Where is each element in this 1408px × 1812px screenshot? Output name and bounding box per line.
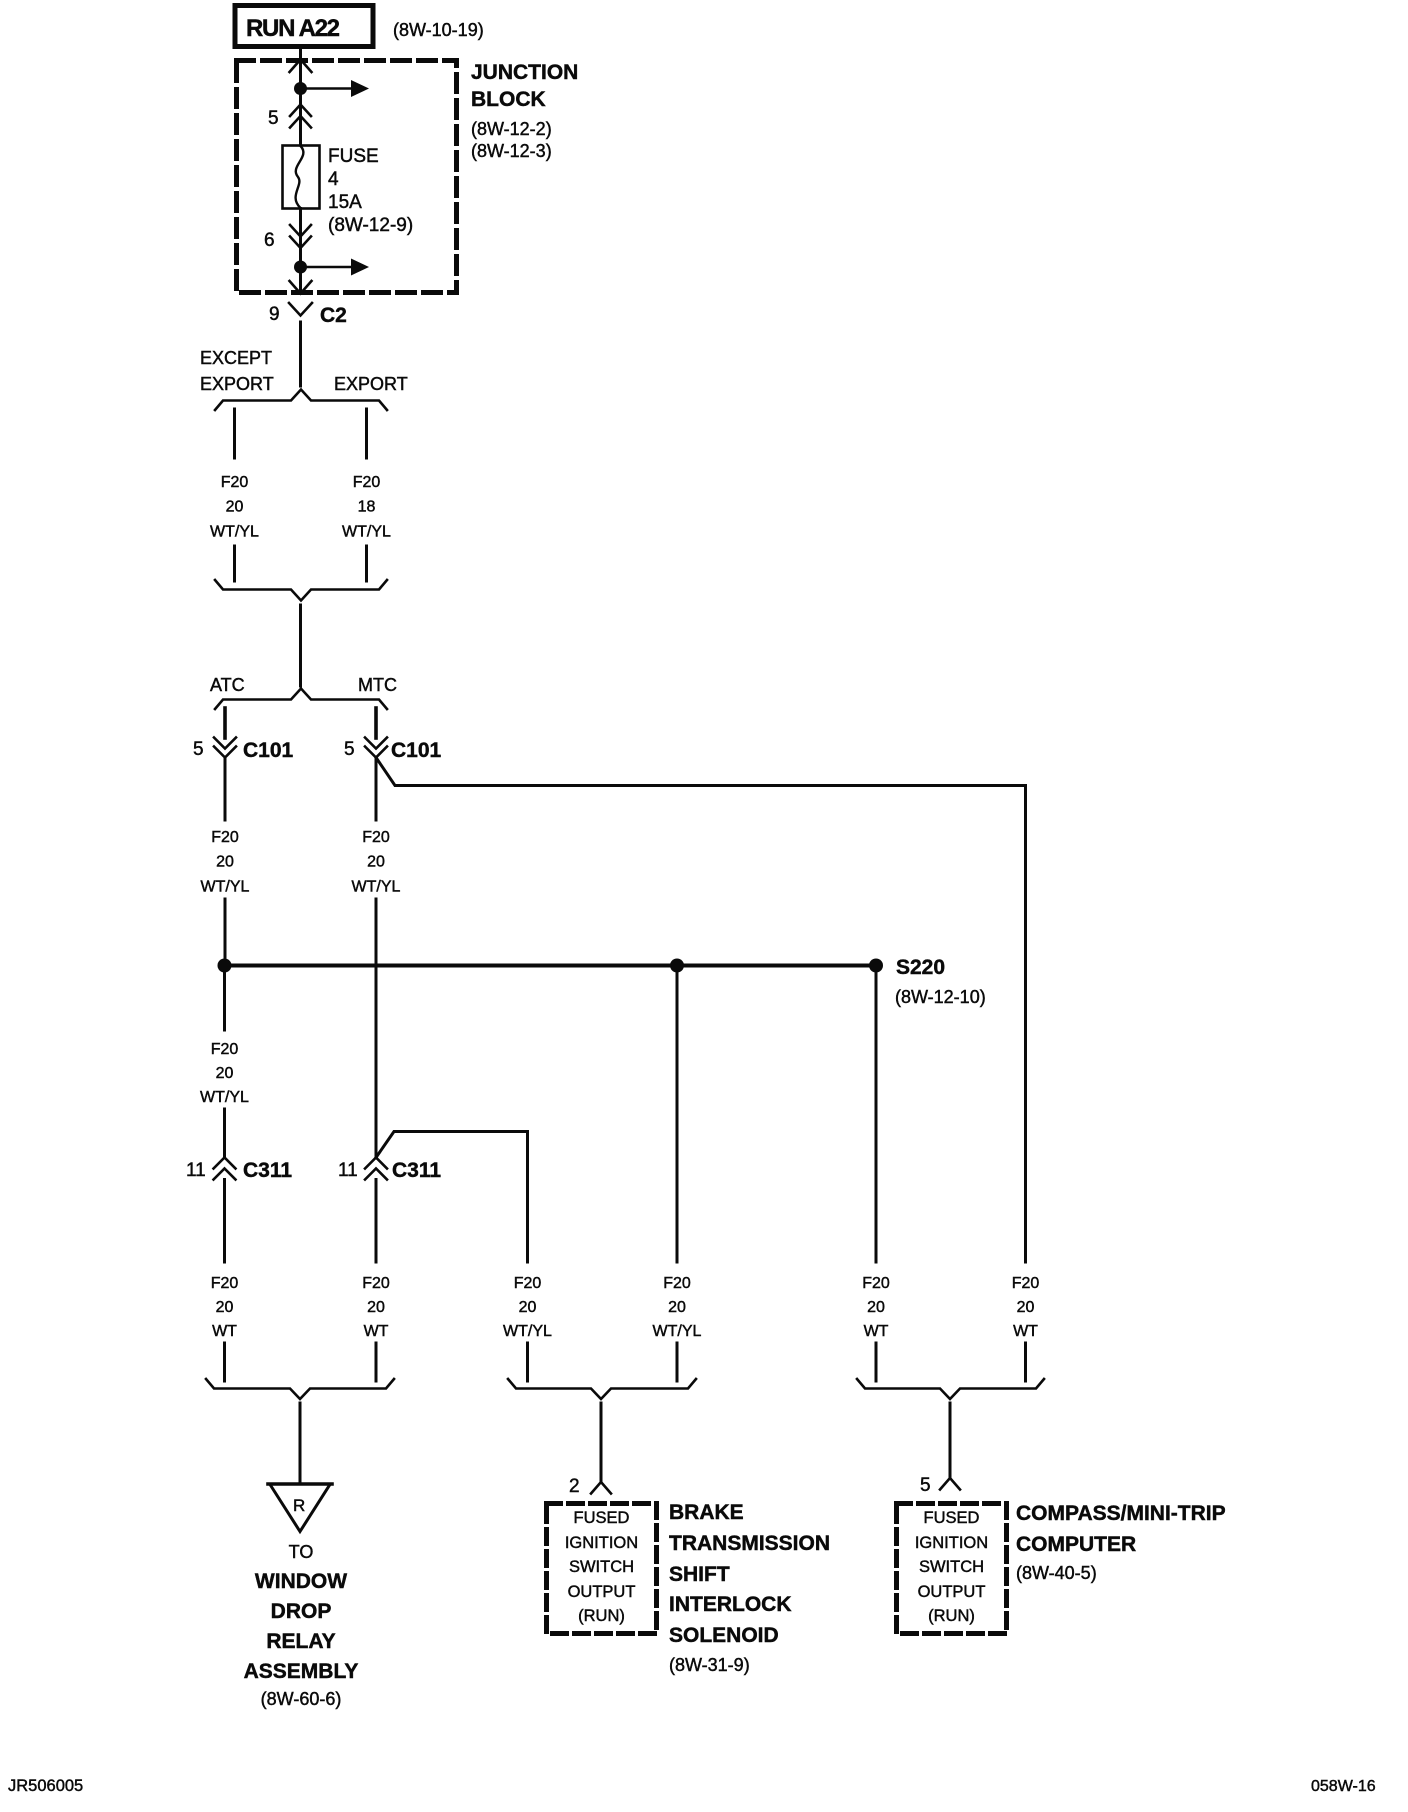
pin split at solenoid	[591, 1482, 611, 1494]
label TO WINDOW DROP RELAY ASSEMBLY (8W-60-6)	[244, 1542, 359, 1709]
wire label F20 20 WT (col 1)	[211, 1275, 239, 1340]
connector C311 (right) chevrons	[365, 1158, 387, 1180]
fused ignition switch output box (computer)	[897, 1504, 1007, 1634]
wire splice to label gap (left col)	[223, 966, 226, 1031]
svg-text:R: R	[293, 1496, 305, 1515]
svg-text:5: 5	[920, 1475, 931, 1496]
connector C311 (left) chevrons	[214, 1158, 236, 1180]
wire label F20 20 WT (col 5)	[862, 1275, 890, 1340]
svg-text:WINDOW: WINDOW	[255, 1570, 347, 1593]
svg-text:INTERLOCK: INTERLOCK	[669, 1593, 792, 1616]
wire label F20 20 WT/YL (col 4)	[653, 1275, 702, 1340]
svg-text:JR506005: JR506005	[8, 1777, 83, 1795]
junction block dashed outline	[237, 61, 457, 293]
svg-text:(8W-40-5): (8W-40-5)	[1016, 1563, 1097, 1583]
svg-text:20: 20	[1017, 1299, 1035, 1316]
svg-text:MTC: MTC	[358, 675, 397, 695]
label JUNCTION BLOCK	[471, 61, 578, 161]
svg-text:BLOCK: BLOCK	[471, 88, 546, 111]
wire col6 to brace	[1024, 1343, 1027, 1381]
wire MTC branch to C101	[374, 708, 378, 738]
wire below C311 right	[375, 1180, 378, 1263]
fused ignition switch output box (solenoid)	[547, 1504, 657, 1634]
arrowhead down at block exit	[290, 281, 312, 294]
svg-text:SHIFT: SHIFT	[669, 1563, 730, 1586]
svg-text:5: 5	[344, 739, 355, 760]
svg-text:6: 6	[264, 230, 275, 251]
wire export branch upper	[365, 409, 368, 458]
arrowhead up at block feed	[290, 60, 312, 73]
junction dot (lower)	[294, 261, 307, 274]
wire label F20 20 WT/YL (ATC)	[201, 829, 250, 896]
wire C2 to export split	[299, 322, 302, 386]
svg-text:EXPORT: EXPORT	[200, 374, 274, 394]
junction dot (upper)	[294, 82, 307, 95]
svg-text:FUSED: FUSED	[574, 1509, 630, 1527]
svg-text:F20: F20	[862, 1275, 890, 1292]
svg-text:20: 20	[867, 1299, 885, 1316]
svg-text:5: 5	[193, 739, 204, 760]
wire label F20 18 WT/YL (right)	[342, 474, 391, 541]
wire to splice bus (left)	[224, 899, 227, 965]
svg-text:20: 20	[216, 854, 234, 871]
wire splice S220 to bottom	[875, 966, 878, 1263]
svg-text:JUNCTION: JUNCTION	[471, 61, 578, 84]
svg-text:C311: C311	[243, 1159, 292, 1182]
wire	[299, 89, 302, 145]
wire below fuse	[299, 209, 302, 268]
svg-text:SOLENOID: SOLENOID	[669, 1624, 779, 1647]
connector pin 6 chevrons	[290, 225, 311, 248]
label BRAKE TRANSMISSION SHIFT INTERLOCK SOLENOID (8W-31-9)	[669, 1501, 830, 1675]
svg-text:F20: F20	[514, 1275, 542, 1292]
svg-text:ASSEMBLY: ASSEMBLY	[244, 1660, 359, 1683]
svg-text:IGNITION: IGNITION	[565, 1534, 638, 1552]
label S220 (8W-12-10)	[895, 956, 986, 1007]
wire ATC branch to C101	[223, 708, 227, 738]
svg-text:(8W-12-2): (8W-12-2)	[471, 119, 552, 139]
svg-text:FUSED: FUSED	[924, 1509, 980, 1527]
wire from RUN A22 into junction block	[299, 49, 302, 88]
wire merge to ATC/MTC split	[299, 605, 302, 686]
svg-text:TO: TO	[289, 1542, 314, 1562]
svg-text:OUTPUT: OUTPUT	[568, 1583, 636, 1601]
fuse 4 body	[283, 146, 320, 209]
wire label F20 20 WT/YL (left)	[210, 474, 259, 541]
svg-text:F20: F20	[211, 1041, 239, 1058]
svg-text:F20: F20	[211, 829, 239, 846]
svg-text:DROP: DROP	[271, 1600, 332, 1623]
svg-text:2: 2	[569, 1476, 580, 1497]
fuse element curve	[296, 146, 304, 208]
splice dot S220	[869, 959, 883, 973]
svg-text:F20: F20	[362, 1275, 390, 1292]
relay terminal triangle R	[268, 1484, 332, 1532]
label COMPASS/MINI-TRIP COMPUTER (8W-40-5)	[1016, 1502, 1226, 1583]
svg-text:WT: WT	[1013, 1323, 1038, 1340]
pin split at computer	[940, 1478, 960, 1490]
wire except-export branch lower	[233, 546, 236, 581]
wire export branch lower	[365, 546, 368, 581]
svg-text:20: 20	[367, 854, 385, 871]
merge brace brake interlock	[508, 1379, 696, 1399]
svg-text:OUTPUT: OUTPUT	[918, 1583, 986, 1601]
arrow to other circuits (upper)	[301, 80, 370, 97]
label FUSE 4 15A (8W-12-9)	[328, 146, 413, 236]
svg-text:(RUN): (RUN)	[578, 1607, 625, 1625]
merge brace compass computer	[857, 1379, 1044, 1399]
svg-text:WT/YL: WT/YL	[342, 524, 391, 541]
svg-text:WT/YL: WT/YL	[200, 1089, 249, 1106]
svg-text:20: 20	[216, 1299, 234, 1316]
wire to brake interlock solenoid	[600, 1403, 603, 1482]
svg-text:F20: F20	[1012, 1275, 1040, 1292]
svg-text:20: 20	[668, 1299, 686, 1316]
svg-text:F20: F20	[211, 1275, 239, 1292]
splice dot left	[218, 959, 232, 973]
split brace EXCEPT EXPORT / EXPORT	[215, 390, 387, 411]
wire below C311 left	[223, 1180, 226, 1263]
svg-text:C101: C101	[391, 739, 442, 762]
svg-text:WT/YL: WT/YL	[210, 524, 259, 541]
wire to compass computer	[949, 1403, 952, 1478]
merge brace below export branches	[215, 580, 387, 601]
wire label F20 20 WT (col 2)	[362, 1275, 390, 1340]
svg-text:5: 5	[268, 108, 279, 129]
svg-text:F20: F20	[353, 474, 381, 491]
svg-text:11: 11	[186, 1160, 206, 1181]
svg-text:(RUN): (RUN)	[928, 1607, 975, 1625]
svg-text:EXCEPT: EXCEPT	[200, 348, 272, 368]
svg-text:WT/YL: WT/YL	[201, 879, 250, 896]
svg-text:(8W-12-10): (8W-12-10)	[895, 987, 986, 1007]
svg-text:9: 9	[269, 304, 280, 325]
svg-text:SWITCH: SWITCH	[569, 1558, 634, 1576]
wire to relay triangle	[299, 1403, 302, 1483]
svg-text:WT: WT	[212, 1323, 237, 1340]
svg-text:(8W-60-6): (8W-60-6)	[261, 1689, 342, 1709]
splice dot middle	[670, 959, 684, 973]
svg-text:EXPORT: EXPORT	[334, 374, 408, 394]
svg-text:WT/YL: WT/YL	[503, 1323, 552, 1340]
svg-text:C2: C2	[320, 304, 347, 327]
merge brace window drop relay	[206, 1379, 394, 1399]
wire col1 to brace	[223, 1343, 226, 1381]
wire col3 to brace	[526, 1343, 529, 1381]
svg-text:058W-16: 058W-16	[1311, 1778, 1376, 1795]
wire label F20 20 WT/YL (MTC)	[352, 829, 401, 896]
branch wire from C101 MTC to right column	[376, 758, 1026, 1263]
svg-text:RELAY: RELAY	[266, 1630, 335, 1653]
split brace ATC / MTC	[215, 689, 387, 710]
wire label F20 20 WT (col 6)	[1012, 1275, 1040, 1340]
label EXCEPT EXPORT	[200, 348, 274, 394]
svg-text:(8W-10-19): (8W-10-19)	[393, 20, 484, 40]
connector C101 (ATC) chevrons	[214, 738, 236, 758]
wire below C101 ATC	[224, 758, 227, 821]
svg-text:F20: F20	[362, 829, 390, 846]
svg-text:C101: C101	[243, 739, 294, 762]
splice S220 bus	[225, 964, 877, 968]
label FUSED IGNITION SWITCH OUTPUT (RUN) (computer)	[915, 1509, 988, 1625]
wire label F20 20 WT/YL (left col)	[200, 1041, 249, 1106]
svg-text:FUSE: FUSE	[328, 146, 379, 167]
svg-text:20: 20	[367, 1299, 385, 1316]
svg-text:4: 4	[328, 169, 339, 190]
svg-text:20: 20	[226, 499, 244, 516]
connector C2 chevron	[289, 303, 312, 316]
arrow to other circuits (lower)	[301, 259, 370, 276]
node RUN A22 (fuse block cavity)	[235, 6, 373, 47]
wire below C101 MTC	[375, 758, 378, 821]
svg-text:20: 20	[519, 1299, 537, 1316]
wire splice mid to bottom	[676, 966, 679, 1263]
svg-text:ATC: ATC	[210, 675, 245, 695]
svg-text:F20: F20	[663, 1275, 691, 1292]
branch wire from C311 right to third column	[376, 1132, 528, 1263]
svg-text:11: 11	[338, 1160, 358, 1181]
svg-text:S220: S220	[896, 956, 945, 979]
svg-text:BRAKE: BRAKE	[669, 1501, 744, 1524]
wire col4 to brace	[676, 1343, 679, 1381]
svg-text:18: 18	[358, 499, 376, 516]
label FUSED IGNITION SWITCH OUTPUT (RUN) (solenoid)	[565, 1509, 638, 1625]
svg-text:COMPASS/MINI-TRIP: COMPASS/MINI-TRIP	[1016, 1502, 1226, 1525]
svg-text:C311: C311	[392, 1159, 441, 1182]
wire MTC column through bus to C311	[375, 899, 378, 1157]
wire except-export branch upper	[233, 409, 236, 458]
svg-text:15A: 15A	[328, 192, 362, 213]
svg-text:COMPUTER: COMPUTER	[1016, 1533, 1136, 1556]
svg-text:IGNITION: IGNITION	[915, 1534, 988, 1552]
wire to C311 (left)	[223, 1109, 226, 1157]
connector pin 5 chevrons	[290, 105, 311, 128]
svg-text:TRANSMISSION: TRANSMISSION	[669, 1532, 830, 1555]
svg-text:F20: F20	[221, 474, 249, 491]
svg-text:WT/YL: WT/YL	[352, 879, 401, 896]
svg-text:(8W-12-3): (8W-12-3)	[471, 141, 552, 161]
svg-text:RUN A22: RUN A22	[246, 15, 340, 42]
wire col5 to brace	[875, 1343, 878, 1381]
svg-text:WT/YL: WT/YL	[653, 1323, 702, 1340]
svg-text:SWITCH: SWITCH	[919, 1558, 984, 1576]
connector C101 (MTC) chevrons	[365, 738, 387, 758]
svg-text:(8W-31-9): (8W-31-9)	[669, 1655, 750, 1675]
svg-text:WT: WT	[364, 1323, 389, 1340]
wire label F20 20 WT/YL (col 3)	[503, 1275, 552, 1340]
svg-text:20: 20	[216, 1065, 234, 1082]
svg-text:(8W-12-9): (8W-12-9)	[328, 215, 413, 236]
wire leaving junction block	[299, 267, 302, 292]
svg-text:WT: WT	[864, 1323, 889, 1340]
wire col2 to brace	[375, 1343, 378, 1381]
